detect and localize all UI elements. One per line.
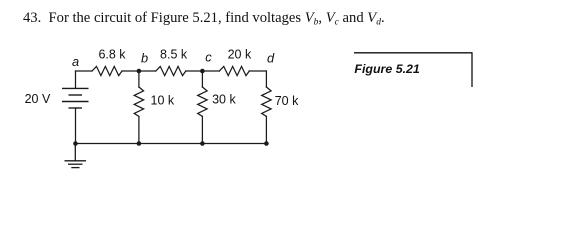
resistor R4 10 k zigzag [134,87,143,116]
resistor R6 70 k zigzag [262,87,271,116]
svg-text:70 k: 70 k [275,94,299,108]
resistor R5 30 k zigzag [198,87,207,116]
wire: battery negative plate down to bottom rail [75,108,77,144]
svg-text:c: c [205,50,212,65]
resistor R1 6.8 k zigzag [92,66,122,75]
svg-text:b: b [141,50,148,65]
wire: node a down to battery positive plate [75,71,77,88]
svg-text:20 k: 20 k [228,48,252,62]
wire: bottom rail [76,143,267,145]
battery E 20 V plates [62,88,89,108]
svg-text:8.5 k: 8.5 k [160,48,188,62]
ground symbol [65,144,87,168]
resistor R3 20 k zigzag [219,66,249,75]
svg-text:30 k: 30 k [212,93,236,107]
wire: top rail segment R2 to node c [186,70,203,72]
wire: top rail segment node c to R3 [202,70,219,72]
wire: top rail segment a to R1 [76,70,93,72]
junction dot bottom left (battery) [73,141,78,146]
wire: top rail segment R1 to node b [122,70,139,72]
figure frame corner lines [354,52,472,87]
svg-text:a: a [72,54,79,69]
junction dot node c top [200,69,205,74]
svg-text:Figure 5.21: Figure 5.21 [354,62,420,76]
wire: R4 down to bottom rail [138,116,140,143]
wire: R6 down to bottom rail [265,116,267,143]
wire: node b down to R4 [138,71,140,87]
junction dot bottom under c [200,141,205,146]
svg-text:6.8 k: 6.8 k [98,48,126,62]
wire: top rail segment R3 to corner d [249,70,266,72]
wire: R5 down to bottom rail [201,116,203,143]
wire: corner d down to R6 [265,71,267,87]
svg-text:d: d [267,51,275,66]
svg-text:10 k: 10 k [151,94,175,108]
wire: node c down to R5 [201,71,203,87]
svg-text:43. For the circuit of Figure: 43. For the circuit of Figure 5.21, find… [23,10,385,28]
junction dot node b top [137,69,142,74]
junction dot bottom under b [137,141,142,146]
svg-text:20 V: 20 V [25,92,51,106]
wire: top rail segment node b to R2 [139,70,156,72]
junction dot bottom under d [264,141,269,146]
resistor R2 8.5 k zigzag [156,66,186,75]
